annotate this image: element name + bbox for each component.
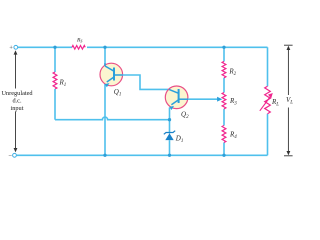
terminal minus (13, 153, 17, 157)
resistor RS (72, 46, 85, 50)
wire Q1 emitter down (104, 84, 106, 155)
wire Q1 collector stub (104, 47, 106, 66)
wire top rail (18, 46, 268, 48)
input arrow (14, 50, 18, 152)
node bottom Q1 (103, 154, 106, 157)
wire R1 bottom to Q2 emitter node with hop over Q1 emitter (55, 117, 170, 120)
svg-text:RS: RS (76, 37, 82, 43)
wire Q2 emitter down (169, 108, 171, 134)
resistor RL (265, 86, 271, 114)
node bottom divider (222, 154, 225, 157)
terminal plus (14, 45, 18, 49)
dimension VL (284, 45, 293, 156)
resistor R4 (222, 126, 226, 143)
node Q2 emitter R1 (168, 118, 171, 121)
resistor R3 (222, 93, 226, 109)
svg-text:input: input (11, 105, 24, 112)
svg-text:d.c.: d.c. (12, 98, 22, 105)
wire Q1 base to Q2 collector (123, 75, 170, 89)
arrow variable RL (260, 93, 273, 111)
node top divider (222, 46, 225, 49)
node top Q1 (103, 46, 106, 49)
zener diode D1 (164, 131, 175, 156)
transistor Q1 (100, 63, 123, 87)
svg-text:+: + (9, 44, 13, 51)
resistor R1 (53, 47, 57, 119)
node top R1 (53, 46, 56, 49)
divider branch wires (223, 47, 225, 155)
node bottom D1 (168, 154, 171, 157)
wire bottom rail (17, 154, 268, 156)
resistor R2 (222, 61, 226, 77)
load branch RL (267, 47, 269, 155)
label unregulated dc input (1, 90, 33, 112)
wire Q2 base to R3 wiper with arrowhead (188, 97, 222, 102)
svg-text:−: − (8, 152, 12, 159)
transistor Q2 (165, 86, 188, 110)
svg-text:Unregulated: Unregulated (1, 90, 33, 97)
